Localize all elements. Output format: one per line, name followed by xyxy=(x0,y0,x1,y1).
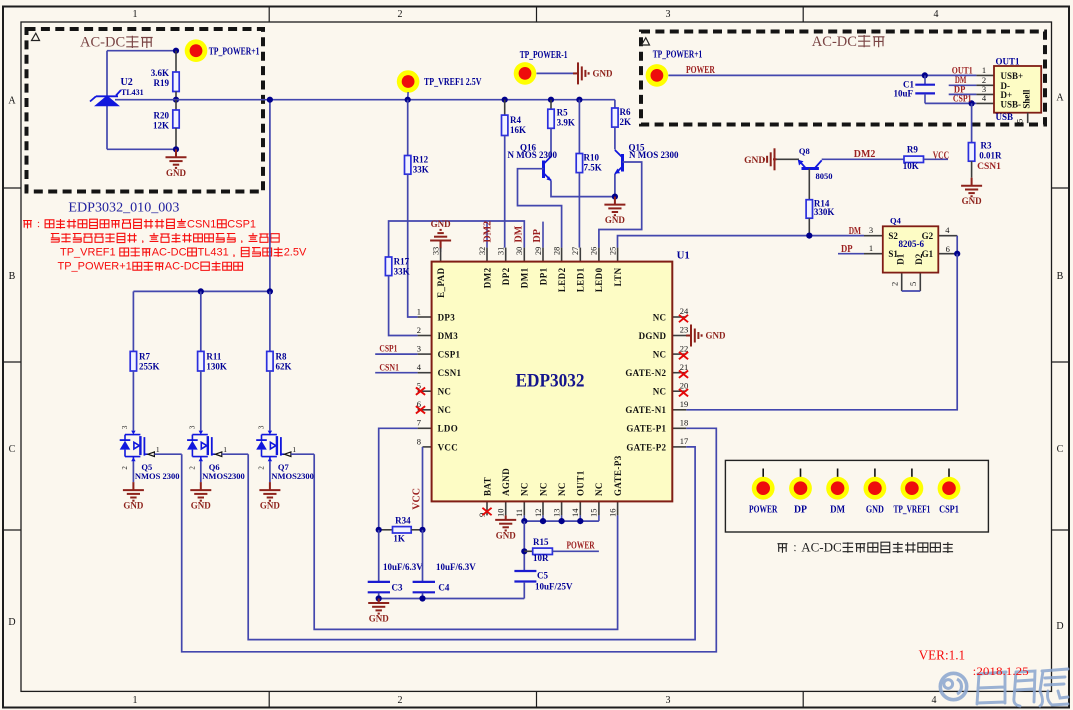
svg-text:16: 16 xyxy=(607,509,617,518)
node junction pin11 xyxy=(521,518,527,524)
wire Q8 base to R14 xyxy=(808,169,810,200)
svg-text:DM: DM xyxy=(514,225,525,242)
node ground junction below R20 xyxy=(173,146,179,152)
svg-text:NC: NC xyxy=(594,482,604,496)
svg-text:TP_VREF1 2.5V: TP_VREF1 2.5V xyxy=(424,77,482,88)
capacitor C5 xyxy=(514,571,536,599)
svg-text:255K: 255K xyxy=(139,362,160,372)
note red line 2 xyxy=(51,234,59,243)
svg-text:U1: U1 xyxy=(677,250,690,262)
node ground junction Q15/Q16 xyxy=(612,194,618,200)
svg-text:GND: GND xyxy=(191,501,212,511)
wire capacitor ground bus xyxy=(379,598,525,600)
corner marker triangle (left box) xyxy=(32,33,40,40)
svg-text:LDO: LDO xyxy=(438,424,458,434)
svg-text:2: 2 xyxy=(188,466,196,470)
svg-text:R15: R15 xyxy=(533,537,549,547)
wire GATE-P2 pin17 to Q6 xyxy=(248,447,695,640)
svg-text:130K: 130K xyxy=(206,362,227,372)
test point GND (interface) xyxy=(864,469,887,500)
svg-text:2: 2 xyxy=(398,695,403,706)
wire C1 bottom to connector pin4 CSP1 xyxy=(925,102,976,104)
node junction R34 left xyxy=(376,527,382,533)
svg-text:AC-DC: AC-DC xyxy=(801,540,841,555)
no-connect X pin22 xyxy=(679,352,688,359)
svg-text:GND: GND xyxy=(605,215,626,225)
svg-text:7.5K: 7.5K xyxy=(584,163,602,173)
svg-text:5: 5 xyxy=(1015,119,1025,123)
svg-text:12: 12 xyxy=(533,509,543,518)
svg-text:R4: R4 xyxy=(510,115,521,125)
svg-text:33K: 33K xyxy=(394,267,410,277)
ground GND below R3 xyxy=(961,178,982,197)
svg-text:OUT1: OUT1 xyxy=(576,470,586,496)
svg-text:11: 11 xyxy=(514,509,524,517)
svg-text:32: 32 xyxy=(478,247,487,255)
svg-text:3: 3 xyxy=(417,344,421,354)
Q4 pin names xyxy=(888,231,933,265)
svg-text:10uF/6.3V: 10uF/6.3V xyxy=(383,562,423,572)
wire Q7 pin1 lead xyxy=(291,453,314,455)
svg-text:R11: R11 xyxy=(206,352,222,362)
no-connect X pin6 xyxy=(416,406,425,413)
svg-text:A: A xyxy=(8,96,16,107)
svg-text:OUT1: OUT1 xyxy=(996,56,1021,66)
ground GND below C3 xyxy=(368,599,389,614)
svg-text:GND: GND xyxy=(369,614,390,624)
svg-text:2: 2 xyxy=(398,9,403,20)
resistor R6 xyxy=(612,108,618,127)
svg-text:DP: DP xyxy=(841,244,853,255)
frame row letters left xyxy=(8,96,16,629)
wire pin33 GND stub xyxy=(440,242,442,253)
svg-text:D: D xyxy=(1056,621,1063,632)
svg-text:CSN1: CSN1 xyxy=(977,162,1001,172)
wire Q6 pin1 lead xyxy=(222,453,248,455)
wire R19 top stub xyxy=(175,51,177,72)
svg-text:6: 6 xyxy=(946,244,950,254)
svg-text:GND: GND xyxy=(744,156,765,166)
resistor R12 xyxy=(405,156,411,175)
svg-text:GND: GND xyxy=(962,196,983,206)
svg-text:OUT1: OUT1 xyxy=(952,66,973,76)
svg-text:R8: R8 xyxy=(276,352,287,362)
connector OUT1 pin numbers 1-4 xyxy=(982,65,987,103)
svg-text:C4: C4 xyxy=(438,583,449,593)
wire R9 to VCC xyxy=(924,158,949,160)
resistor R17 xyxy=(385,257,391,276)
svg-text:CSN1: CSN1 xyxy=(438,368,462,378)
svg-text:POWER: POWER xyxy=(567,540,596,551)
chip U1 left pin numbers xyxy=(417,306,422,446)
corner marker triangle (right box) xyxy=(642,38,650,45)
wire R3 to ground xyxy=(971,161,973,178)
svg-text:C5: C5 xyxy=(537,571,548,581)
resistor R4 xyxy=(502,100,508,136)
chip U1 body EDP3032 xyxy=(432,262,673,502)
svg-text:1: 1 xyxy=(982,65,986,75)
svg-text:CSN1: CSN1 xyxy=(187,218,216,230)
chip U1 top pin names (rotated) xyxy=(436,267,623,297)
node junction CSP1 xyxy=(969,100,975,106)
wire Q8 collector to R9 xyxy=(822,158,904,160)
no-connect X pin20 xyxy=(679,389,688,396)
svg-text:1: 1 xyxy=(417,306,421,316)
svg-text:DP: DP xyxy=(794,505,807,516)
svg-text:26: 26 xyxy=(590,247,599,255)
connector OUT1 pin5 stub xyxy=(1027,113,1029,123)
svg-text:2: 2 xyxy=(121,466,129,470)
svg-text:3: 3 xyxy=(121,425,129,429)
test point TP_POWER-1 xyxy=(514,62,537,85)
svg-text:14: 14 xyxy=(570,508,580,517)
node junction pin14 xyxy=(577,518,583,524)
wire R12 to pin1 DP3 xyxy=(408,174,418,317)
svg-text:NC: NC xyxy=(538,482,548,496)
svg-text:C: C xyxy=(9,444,16,455)
shunt regulator U2 TL431 symbol xyxy=(90,90,121,105)
svg-text:2: 2 xyxy=(890,282,900,286)
svg-text:TP_VREF1: TP_VREF1 xyxy=(894,505,931,516)
svg-text:R12: R12 xyxy=(413,155,429,165)
node header junction R11 xyxy=(198,288,204,294)
resistor R8 xyxy=(267,291,273,430)
svg-text:30: 30 xyxy=(515,247,524,255)
svg-text:4: 4 xyxy=(934,9,939,20)
chip U1 right pin numbers xyxy=(680,306,689,446)
wire Q4 D1-D2 link xyxy=(902,290,921,292)
svg-text:C3: C3 xyxy=(392,583,403,593)
wire rail corner to R6 xyxy=(614,100,616,108)
wire Q4 gates to GATE-N1 pin19 xyxy=(686,254,957,410)
svg-text:R5: R5 xyxy=(557,108,568,118)
chip U1 right pin names xyxy=(625,312,666,452)
resistor R9 xyxy=(904,156,924,162)
svg-text:C: C xyxy=(1057,444,1064,455)
svg-text:R3: R3 xyxy=(981,141,992,151)
svg-text:31: 31 xyxy=(497,247,506,255)
svg-text:DM2: DM2 xyxy=(482,221,493,243)
dual mosfet Q4 8205-6 pin stubs xyxy=(864,236,957,291)
chip U1 pin stubs xyxy=(418,248,687,516)
svg-text:3: 3 xyxy=(869,225,873,235)
svg-text:8050: 8050 xyxy=(816,171,833,181)
svg-text:10uF: 10uF xyxy=(893,89,913,99)
svg-text:NC: NC xyxy=(557,482,567,496)
wire TL431 anode loop bottom xyxy=(107,148,176,150)
svg-text:23: 23 xyxy=(680,325,689,335)
test point TP_VREF1 xyxy=(397,70,420,93)
resistor R34 xyxy=(379,527,423,533)
svg-text:0.01R: 0.01R xyxy=(979,150,1002,160)
node rail junction R4 xyxy=(502,97,508,103)
svg-text:10: 10 xyxy=(496,509,506,518)
resistor R19 xyxy=(173,72,179,92)
node header junction R8 xyxy=(267,288,273,294)
svg-text:NC: NC xyxy=(438,387,452,397)
node junction pin12 xyxy=(540,518,546,524)
node rail junction x270 xyxy=(267,97,273,103)
wire CSP1 down to R3 xyxy=(971,103,973,142)
Q4 pin numbers xyxy=(869,225,950,286)
wire POWER to connector pin1 xyxy=(668,74,976,76)
svg-text:5: 5 xyxy=(908,282,918,286)
resistor R5 xyxy=(548,100,554,129)
resistor R15 xyxy=(524,548,599,554)
svg-text:TP_POWER+1: TP_POWER+1 xyxy=(58,261,132,273)
svg-text:R17: R17 xyxy=(394,257,410,267)
wire DM net from pin25 to Q4 S2 xyxy=(618,236,865,248)
svg-text:USB+: USB+ xyxy=(1001,71,1024,81)
svg-text:EDP3032_010_003: EDP3032_010_003 xyxy=(68,200,179,215)
svg-text:DM: DM xyxy=(830,505,845,516)
resistor R7 xyxy=(130,291,136,430)
watermark characters Ri Yue Chen xyxy=(977,669,1068,706)
svg-text:GND: GND xyxy=(260,501,281,511)
connector OUT1 pin stubs xyxy=(976,75,994,103)
wire Q15 emitter to ground xyxy=(614,174,616,197)
svg-text:USB: USB xyxy=(996,112,1014,122)
ground GND above pin33 (inverted) xyxy=(430,230,451,249)
svg-text:CSP1: CSP1 xyxy=(939,505,959,516)
wire rail to R10 xyxy=(578,100,580,154)
frame row letters right xyxy=(1056,93,1064,633)
svg-text:GND: GND xyxy=(496,530,517,540)
transistor Q16 (N MOS 2300) xyxy=(544,157,552,182)
frame column numbers bottom xyxy=(133,695,937,706)
node junction pin13 xyxy=(559,518,565,524)
svg-text:D1: D1 xyxy=(896,253,906,264)
wire R19 bottom stub xyxy=(175,92,177,100)
wire R5 to Q16 collector xyxy=(550,128,552,156)
svg-text:Q8: Q8 xyxy=(799,146,810,156)
svg-text:62K: 62K xyxy=(276,362,292,372)
frame column numbers top xyxy=(133,9,939,20)
wire Q16 base to pin28 LED2 xyxy=(518,169,562,248)
svg-text:AC-DC: AC-DC xyxy=(812,34,857,50)
wire rail down to R7/R8 header xyxy=(269,100,271,292)
svg-text:17: 17 xyxy=(680,436,689,446)
wire TL431 cathode loop top xyxy=(107,50,176,52)
node TP_POWER+1 junction xyxy=(173,48,179,54)
svg-text:2K: 2K xyxy=(620,117,632,127)
wire TL431 cathode vertical xyxy=(106,51,108,96)
svg-text:AC-DC: AC-DC xyxy=(152,247,187,259)
svg-text:VER:1.1: VER:1.1 xyxy=(919,647,966,662)
svg-text:4: 4 xyxy=(945,225,950,235)
svg-text:DM3: DM3 xyxy=(438,331,459,341)
test point TP_POWER+1 (left) xyxy=(185,39,208,62)
no-connect X pin5 xyxy=(416,388,425,395)
svg-text:2.5V: 2.5V xyxy=(284,247,307,259)
svg-text:BAT: BAT xyxy=(482,477,492,496)
svg-text:POWER: POWER xyxy=(686,65,715,76)
wire net stub pin29 DP xyxy=(542,222,544,248)
no-connect X pin24 xyxy=(679,315,688,322)
capacitor C4 xyxy=(413,530,435,599)
svg-text:TL431: TL431 xyxy=(121,88,144,97)
wire rail to R12 xyxy=(407,100,409,156)
wire bus down to R15/C5 xyxy=(523,521,525,571)
svg-text:GND: GND xyxy=(866,505,884,516)
wire TP_POWER-1 to ground xyxy=(537,72,577,74)
transistor Q8 8050 xyxy=(798,160,822,169)
svg-text:CSP1: CSP1 xyxy=(438,350,461,360)
svg-text:DM2: DM2 xyxy=(482,267,492,288)
svg-text:Shell: Shell xyxy=(1022,89,1032,109)
wire TL431 anode vertical xyxy=(106,105,108,149)
wire pin8 VCC corner to R34 right xyxy=(422,447,424,530)
wire R10 to pin27 LED1 xyxy=(578,173,580,248)
svg-text:2: 2 xyxy=(257,466,265,470)
svg-text:3: 3 xyxy=(666,695,671,706)
svg-text:DM1: DM1 xyxy=(520,267,530,288)
svg-text:13: 13 xyxy=(551,509,561,518)
ground AGND pin10 xyxy=(495,515,516,530)
node rail junction R10 xyxy=(576,97,582,103)
test point TP_VREF1 (interface) xyxy=(901,469,924,500)
svg-text:19: 19 xyxy=(680,399,689,409)
svg-text:NMOS 2300: NMOS 2300 xyxy=(135,471,180,481)
wire Q7 source to ground xyxy=(269,462,271,483)
svg-text:GND: GND xyxy=(123,501,144,511)
resistor R10 xyxy=(576,154,582,173)
wire Q16 emitter to ground xyxy=(551,181,615,197)
svg-text:16K: 16K xyxy=(510,125,526,135)
capacitor C1 xyxy=(915,75,935,103)
svg-text:G2: G2 xyxy=(922,231,934,241)
watermark logo circle xyxy=(940,673,966,699)
transistor Q5 (NMOS 2300) xyxy=(120,431,155,462)
node junction R15 xyxy=(521,548,527,554)
svg-text:D2: D2 xyxy=(914,253,924,264)
svg-text:GND: GND xyxy=(166,168,187,178)
transistor Q7 (NMOS2300) xyxy=(256,431,291,462)
svg-text:GND: GND xyxy=(593,68,614,78)
wire DP stub at connector xyxy=(949,93,977,95)
transistor Q6 (NMOS2300) xyxy=(187,431,222,462)
svg-text:A: A xyxy=(1056,93,1064,104)
transistor Q15 (N MOS 2300) xyxy=(615,150,623,174)
svg-text:DP2: DP2 xyxy=(501,267,511,285)
wire Q6 source to ground xyxy=(200,462,202,483)
svg-text:DGND: DGND xyxy=(639,331,667,341)
ground GND at Q8 emitter (sideways, mirrored) xyxy=(764,148,777,170)
wire net CSN1 stub xyxy=(375,372,417,374)
svg-text:TP_POWER+1: TP_POWER+1 xyxy=(653,50,703,61)
svg-text:12K: 12K xyxy=(153,121,169,131)
svg-text:USB-: USB- xyxy=(1001,99,1022,109)
svg-text:R10: R10 xyxy=(584,153,600,163)
test point DP (interface) xyxy=(789,469,812,500)
svg-text:NC: NC xyxy=(653,387,667,397)
svg-text:B: B xyxy=(1057,271,1064,282)
wire pins 11-15 bus xyxy=(524,515,599,521)
svg-text:POWER: POWER xyxy=(749,505,778,516)
node junction R14/DM xyxy=(806,233,812,239)
svg-text:27: 27 xyxy=(571,247,580,255)
svg-text::2018.1.25: :2018.1.25 xyxy=(973,664,1029,678)
svg-text:1: 1 xyxy=(156,445,160,454)
dashed region box AC-DC front-end (right) xyxy=(641,32,1045,125)
ground GND below R20 xyxy=(166,149,187,168)
svg-text:GATE-P3: GATE-P3 xyxy=(613,455,623,496)
ground GND below Q6 xyxy=(190,482,211,501)
svg-text:TP_VREF1: TP_VREF1 xyxy=(60,247,116,259)
dashed region box AC-DC front-end (left) xyxy=(27,29,264,192)
svg-text:LED2: LED2 xyxy=(557,267,567,292)
wire net CSP1 stub xyxy=(375,353,417,355)
svg-text:S2: S2 xyxy=(888,231,898,241)
svg-text:AGND: AGND xyxy=(501,468,511,496)
wire Q15 base to pin26 LED0 xyxy=(599,162,642,248)
svg-text:10R: 10R xyxy=(533,553,549,563)
svg-text:33K: 33K xyxy=(413,165,429,175)
wire GATE-P3 pin16 to Q7 xyxy=(314,454,617,629)
svg-text:LED1: LED1 xyxy=(576,267,586,292)
wire Q5 source to ground xyxy=(132,462,134,483)
svg-text:CSP1: CSP1 xyxy=(379,344,397,354)
ground GND at TP_POWER-1 (sideways) xyxy=(573,62,589,84)
svg-text:8: 8 xyxy=(417,436,421,446)
svg-text:GATE-P1: GATE-P1 xyxy=(626,424,666,434)
chip U1 bottom pin numbers (rotated) xyxy=(477,508,618,517)
svg-text:TP_POWER-1: TP_POWER-1 xyxy=(520,50,568,61)
svg-text:TP_POWER+1: TP_POWER+1 xyxy=(209,46,260,57)
svg-text:15: 15 xyxy=(589,509,599,518)
svg-text:R7: R7 xyxy=(139,352,150,362)
svg-text:1K: 1K xyxy=(393,534,405,544)
svg-text:NC: NC xyxy=(438,405,452,415)
wire net stub pin32 DM2 xyxy=(486,222,488,248)
ground GND below Q5 xyxy=(123,482,144,501)
svg-text:4: 4 xyxy=(932,695,937,706)
test point interface box xyxy=(725,460,988,532)
wire DM1 link R17 xyxy=(389,221,525,257)
svg-text:D: D xyxy=(8,617,15,628)
node rail junction TP_VREF1 xyxy=(405,97,411,103)
svg-text:N MOS 2300: N MOS 2300 xyxy=(508,150,558,160)
svg-text:NMOS2300: NMOS2300 xyxy=(202,471,245,481)
svg-text:18: 18 xyxy=(680,418,689,428)
svg-text:1: 1 xyxy=(869,243,873,253)
svg-text:10K: 10K xyxy=(903,161,919,171)
node VREF rail junction at R19/R20 xyxy=(173,97,179,103)
svg-text:B: B xyxy=(9,271,16,282)
wire Q5 pin1 lead xyxy=(154,453,181,455)
svg-text:GATE-P2: GATE-P2 xyxy=(626,442,666,452)
svg-text:VCC: VCC xyxy=(412,488,423,510)
svg-text:DM2: DM2 xyxy=(854,149,876,160)
svg-text:1: 1 xyxy=(133,695,138,706)
svg-text:R20: R20 xyxy=(154,111,170,121)
wire R7/R11/R8 top header xyxy=(133,290,270,292)
svg-text:8205-6: 8205-6 xyxy=(899,239,925,249)
svg-text:LED0: LED0 xyxy=(594,267,604,292)
svg-text:NC: NC xyxy=(520,482,530,496)
node junction C3 bottom xyxy=(376,595,382,601)
svg-text:1: 1 xyxy=(223,445,227,454)
svg-text:R6: R6 xyxy=(620,107,631,117)
svg-text:1: 1 xyxy=(292,445,296,454)
ground GND below Q15 xyxy=(604,197,625,216)
test point DM (interface) xyxy=(826,469,849,500)
svg-text:29: 29 xyxy=(534,247,543,255)
capacitor C3 xyxy=(368,530,390,599)
node rail junction R5 xyxy=(548,97,554,103)
test point TP_POWER+1 (right) xyxy=(646,64,669,87)
resistor R11 xyxy=(198,291,204,430)
